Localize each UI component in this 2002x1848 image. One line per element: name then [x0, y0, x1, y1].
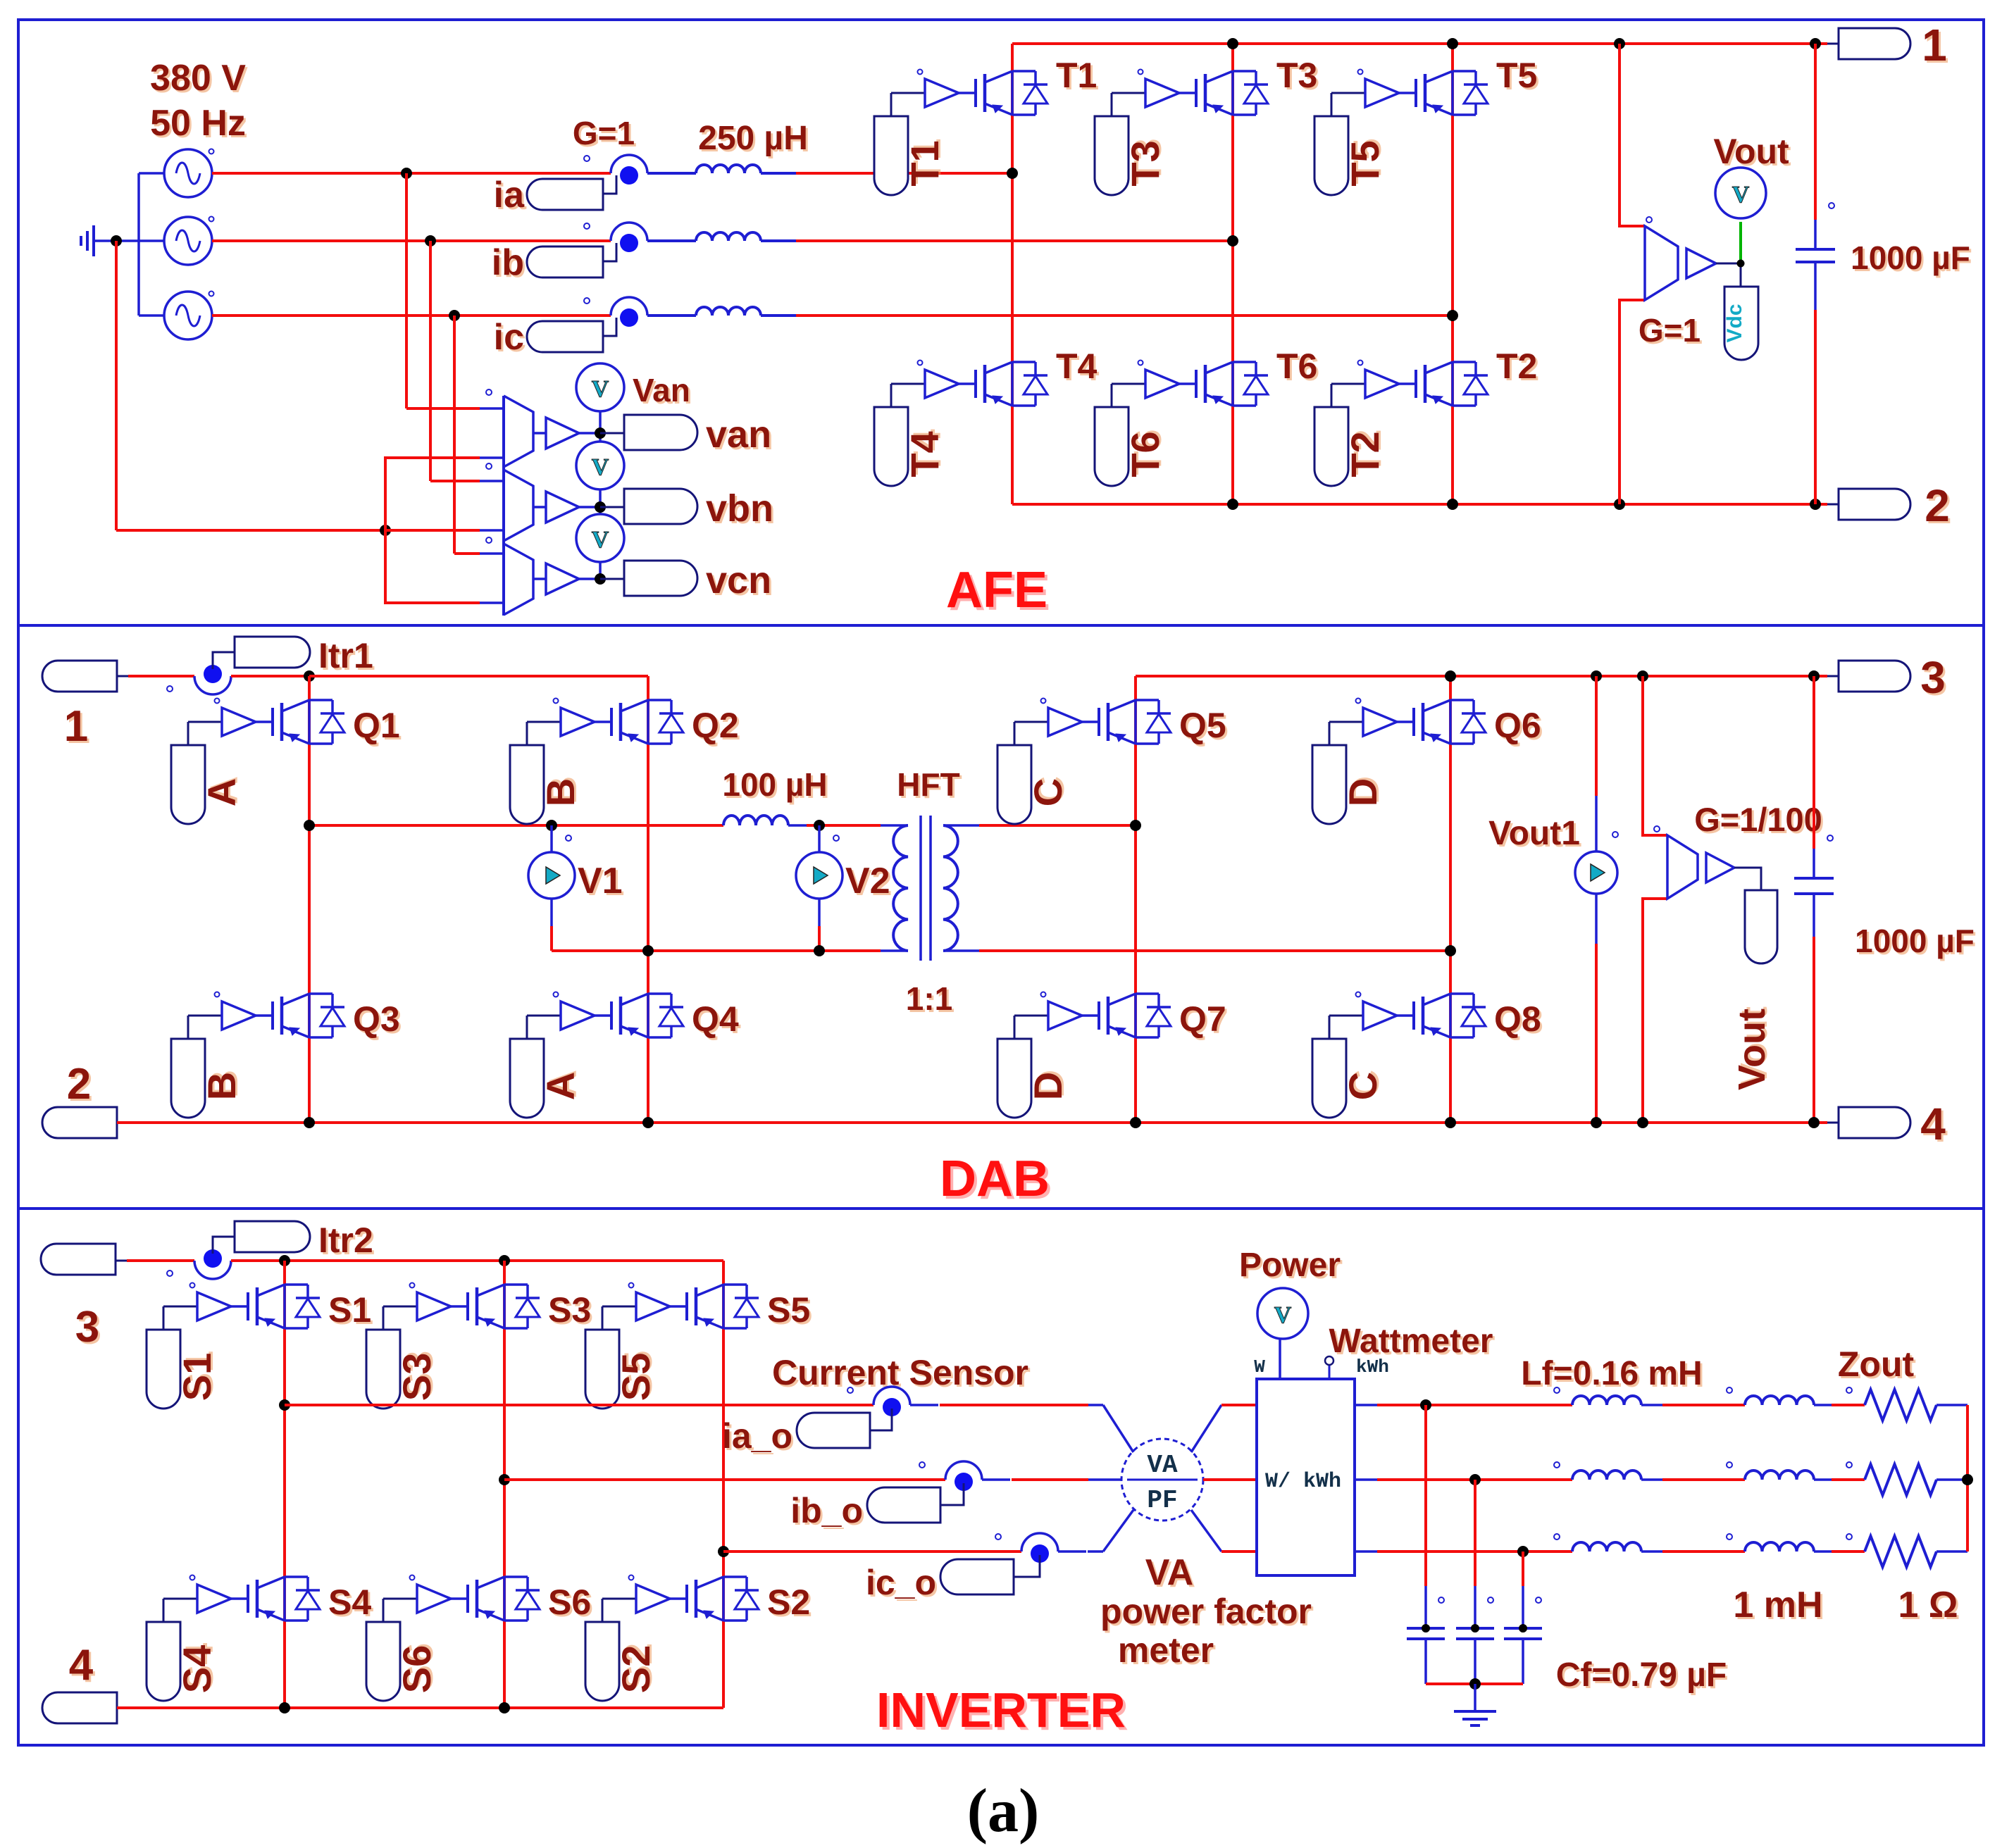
svg-text:Vout1: Vout1 — [1488, 815, 1580, 852]
svg-text:VA: VA — [1145, 1552, 1193, 1593]
svg-text:B: B — [199, 1072, 244, 1100]
svg-text:ia_o: ia_o — [722, 1416, 792, 1456]
svg-text:W: W — [1254, 1356, 1265, 1378]
svg-text:Current Sensor: Current Sensor — [772, 1353, 1028, 1392]
svg-text:Vout: Vout — [1713, 132, 1789, 171]
svg-text:4: 4 — [69, 1641, 94, 1690]
svg-text:S4: S4 — [328, 1582, 371, 1622]
svg-text:Q5: Q5 — [1179, 706, 1226, 745]
svg-text:T3: T3 — [1123, 140, 1167, 186]
svg-text:ic_o: ic_o — [866, 1563, 936, 1602]
svg-text:Q4: Q4 — [692, 999, 739, 1039]
svg-text:380 V: 380 V — [150, 58, 246, 99]
svg-text:1: 1 — [1922, 20, 1947, 70]
svg-text:1:1: 1:1 — [906, 980, 952, 1017]
svg-text:S5: S5 — [767, 1290, 810, 1330]
svg-text:van: van — [706, 413, 771, 456]
svg-text:power factor: power factor — [1100, 1592, 1312, 1631]
svg-text:T2: T2 — [1496, 346, 1537, 386]
svg-text:Vout: Vout — [1731, 1009, 1773, 1090]
svg-text:D: D — [1341, 778, 1385, 806]
svg-text:T6: T6 — [1123, 431, 1167, 477]
svg-text:3: 3 — [75, 1303, 99, 1351]
svg-text:Power: Power — [1239, 1247, 1341, 1284]
svg-text:vbn: vbn — [706, 487, 773, 530]
svg-text:Q8: Q8 — [1494, 999, 1541, 1039]
svg-text:250 µH: 250 µH — [698, 120, 808, 157]
svg-text:S3: S3 — [548, 1290, 591, 1330]
svg-text:HFT: HFT — [897, 766, 959, 803]
svg-text:S1: S1 — [175, 1353, 219, 1401]
svg-text:INVERTER: INVERTER — [876, 1682, 1126, 1737]
svg-text:C: C — [1341, 1072, 1385, 1100]
svg-text:S2: S2 — [767, 1582, 810, 1622]
svg-text:Vdc: Vdc — [1723, 304, 1746, 342]
svg-text:1 mH: 1 mH — [1733, 1585, 1822, 1625]
svg-text:Q6: Q6 — [1494, 706, 1541, 745]
svg-text:ic: ic — [494, 317, 524, 358]
svg-text:Q3: Q3 — [353, 999, 400, 1039]
svg-text:D: D — [1026, 1072, 1070, 1100]
svg-text:PF: PF — [1147, 1486, 1177, 1515]
svg-text:S6: S6 — [394, 1645, 439, 1694]
svg-text:C: C — [1026, 778, 1070, 806]
svg-text:A: A — [538, 1072, 583, 1100]
svg-text:T2: T2 — [1343, 431, 1387, 477]
svg-text:DAB: DAB — [940, 1151, 1050, 1207]
svg-text:S4: S4 — [175, 1645, 219, 1694]
svg-text:Q7: Q7 — [1179, 999, 1226, 1039]
svg-text:A: A — [199, 778, 244, 806]
svg-text:S5: S5 — [614, 1353, 658, 1401]
svg-text:Lf=0.16 mH: Lf=0.16 mH — [1521, 1355, 1702, 1392]
svg-text:B: B — [538, 778, 583, 806]
svg-text:1000 µF: 1000 µF — [1855, 923, 1975, 959]
svg-text:T3: T3 — [1276, 56, 1317, 95]
svg-text:1 Ω: 1 Ω — [1898, 1585, 1958, 1625]
svg-text:S6: S6 — [548, 1582, 591, 1622]
svg-text:1000 µF: 1000 µF — [1851, 239, 1970, 276]
svg-text:ia: ia — [494, 175, 525, 216]
svg-text:2: 2 — [67, 1060, 91, 1109]
svg-text:V: V — [592, 376, 609, 402]
svg-text:Q1: Q1 — [353, 706, 400, 745]
svg-text:Van: Van — [633, 372, 690, 408]
svg-text:3: 3 — [1920, 652, 1946, 703]
svg-text:AFE: AFE — [946, 562, 1047, 618]
svg-text:meter: meter — [1118, 1630, 1214, 1670]
svg-text:100 µH: 100 µH — [722, 766, 827, 803]
svg-text:T1: T1 — [1056, 56, 1097, 95]
svg-text:50 Hz: 50 Hz — [150, 103, 246, 144]
svg-text:S3: S3 — [394, 1353, 439, 1401]
svg-text:S1: S1 — [328, 1290, 371, 1330]
svg-text:(a): (a) — [967, 1777, 1040, 1844]
svg-text:Itr2: Itr2 — [318, 1220, 373, 1260]
svg-text:2: 2 — [1925, 480, 1950, 531]
svg-text:Cf=0.79 µF: Cf=0.79 µF — [1556, 1656, 1727, 1694]
svg-text:S2: S2 — [614, 1645, 658, 1694]
svg-text:T5: T5 — [1343, 140, 1387, 186]
svg-text:G=1/100: G=1/100 — [1694, 801, 1822, 838]
svg-text:V2: V2 — [845, 861, 890, 901]
svg-text:V: V — [592, 527, 609, 553]
svg-text:T5: T5 — [1496, 56, 1537, 95]
svg-text:Q2: Q2 — [692, 706, 739, 745]
svg-text:G=1: G=1 — [1639, 312, 1701, 349]
svg-text:4: 4 — [1920, 1099, 1946, 1149]
svg-text:V: V — [592, 454, 609, 480]
svg-text:T4: T4 — [902, 431, 947, 477]
svg-text:V: V — [1274, 1302, 1292, 1328]
svg-text:Itr1: Itr1 — [318, 636, 373, 675]
svg-text:T4: T4 — [1056, 346, 1098, 386]
svg-text:Wattmeter: Wattmeter — [1329, 1323, 1493, 1360]
svg-text:G=1: G=1 — [573, 115, 635, 151]
svg-text:V1: V1 — [578, 861, 623, 901]
svg-text:vcn: vcn — [706, 559, 771, 601]
svg-text:V: V — [1732, 182, 1750, 208]
svg-text:Zout: Zout — [1838, 1344, 1915, 1384]
svg-text:ib_o: ib_o — [790, 1491, 863, 1530]
svg-text:VA: VA — [1147, 1451, 1178, 1480]
svg-text:T6: T6 — [1276, 346, 1317, 386]
svg-text:T1: T1 — [902, 140, 947, 186]
svg-text:1: 1 — [64, 702, 88, 751]
svg-text:ib: ib — [492, 242, 524, 283]
svg-text:W/ kWh: W/ kWh — [1265, 1470, 1341, 1494]
